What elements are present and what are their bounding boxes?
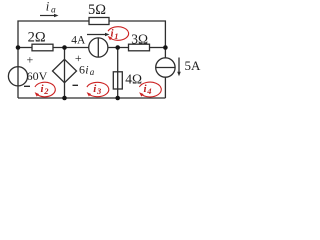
svg-text:5A: 5A <box>185 58 202 73</box>
svg-text:3: 3 <box>96 86 102 96</box>
voltage source 60V circle <box>8 67 27 86</box>
current arrow 5A direction <box>178 58 180 73</box>
svg-text:a: a <box>90 67 95 77</box>
wire mid row: 4A source to 3ohm <box>108 47 129 49</box>
svg-text:1: 1 <box>114 31 118 41</box>
svg-text:5Ω: 5Ω <box>88 2 106 18</box>
minus sign 6ia <box>73 84 79 86</box>
svg-text:4Ω: 4Ω <box>125 71 142 86</box>
wire top: left corner to 5ohm box <box>18 21 89 48</box>
dependent source 6ia diamond <box>53 59 77 82</box>
wire branch 4ohm <box>117 48 119 99</box>
wire left branch through 60V source <box>17 48 19 99</box>
svg-text:60V: 60V <box>27 69 48 83</box>
svg-text:+: + <box>27 52 34 66</box>
svg-text:i: i <box>85 62 88 76</box>
svg-text:4A: 4A <box>71 34 86 46</box>
svg-text:2Ω: 2Ω <box>28 29 46 45</box>
svg-text:i: i <box>46 0 50 14</box>
wire top: 5ohm box to right corner down to node <box>109 21 165 48</box>
resistor R 3ohm box <box>129 44 150 51</box>
svg-text:a: a <box>51 6 56 16</box>
mesh current i2 red loop <box>35 82 55 97</box>
wire mid row: 2ohm to 4A source <box>53 47 89 49</box>
wire mid row: left node to 2ohm <box>18 47 32 49</box>
mesh current i4 red loop <box>139 82 161 97</box>
current arrow 4A direction <box>87 34 106 36</box>
wire branch dependent source <box>64 48 66 99</box>
svg-text:6: 6 <box>79 62 85 76</box>
arrowhead 5A <box>177 72 181 76</box>
mesh current i1 red loop <box>108 27 129 41</box>
resistor R 4ohm box <box>113 72 122 89</box>
wire mid row: 3ohm to right node <box>150 47 166 49</box>
svg-text:3Ω: 3Ω <box>131 31 148 46</box>
current source 4A circle with vertical bar <box>89 38 108 57</box>
junction node dots <box>16 45 21 50</box>
resistor R 5ohm box <box>89 18 109 25</box>
current source 5A circle with horizontal bar <box>156 58 175 77</box>
svg-text:2: 2 <box>43 86 49 96</box>
wire 5A source to bottom <box>164 77 166 98</box>
minus sign 60V <box>24 85 30 87</box>
current arrow ia at top <box>40 15 56 17</box>
resistor R 2ohm box <box>32 44 53 51</box>
wire right branch to 5A source <box>164 48 166 58</box>
svg-text:4: 4 <box>146 86 151 96</box>
wire bottom <box>18 97 165 99</box>
mesh current i3 red loop <box>87 82 109 96</box>
